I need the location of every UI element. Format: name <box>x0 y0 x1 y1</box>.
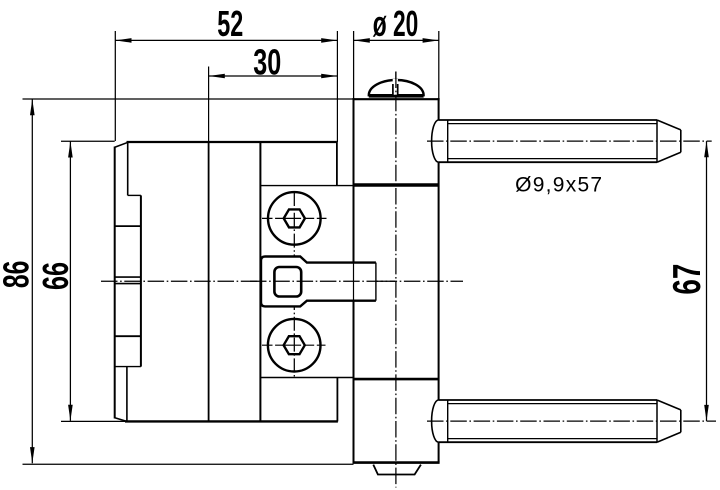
center block inner square <box>274 267 301 297</box>
boss line D <box>115 335 141 337</box>
boss step bottom <box>115 366 141 368</box>
svg-text:66: 66 <box>35 262 76 290</box>
boss line C <box>115 283 141 285</box>
screw U1 circle <box>268 192 321 245</box>
pin2 thread line top <box>448 403 657 405</box>
boss line B <box>115 276 141 278</box>
screw column left edge <box>259 142 261 421</box>
boss line A <box>115 225 141 227</box>
leaf top edge <box>127 141 337 143</box>
pin2 cone top slant <box>657 400 681 410</box>
dimension 67 arrow bottom <box>704 405 709 421</box>
pin head dome slot <box>393 79 398 95</box>
dimension 86 line <box>31 99 33 463</box>
barrel right edge middle <box>438 162 440 400</box>
svg-text:30: 30 <box>253 41 281 82</box>
bottom plug <box>373 465 421 475</box>
leaf inner edge lower <box>126 367 128 421</box>
svg-text:86: 86 <box>0 261 37 289</box>
dimension 86 arrow bottom <box>30 447 35 463</box>
dimension o20 arrow left <box>354 38 370 43</box>
pin2 cap arc <box>432 400 439 442</box>
pin1 cap joint <box>447 120 449 162</box>
screw U2 hex socket <box>284 336 305 354</box>
pin1 top edge <box>439 119 657 121</box>
pin1 cone bottom slant <box>657 152 681 162</box>
barrel right edge upper <box>438 98 440 120</box>
pin2 cap joint <box>447 400 449 442</box>
dimension 52/30 extension right <box>336 31 338 142</box>
pin head dome base <box>369 95 424 98</box>
pin2 cone base <box>656 400 658 442</box>
dimension 52 arrow left <box>115 38 131 43</box>
pin2 thread line bottom <box>448 438 657 440</box>
bottom block top line <box>260 377 353 379</box>
pin1 cone tip <box>680 130 682 152</box>
centerline screw1 horizontal <box>262 217 327 219</box>
svg-text:ø 20: ø 20 <box>373 3 419 44</box>
dimension 30 arrow right <box>321 74 337 79</box>
barrel left edge over tongue <box>353 263 355 301</box>
centerline screw2 horizontal <box>262 344 326 346</box>
dimension 67 line <box>706 141 708 421</box>
boss step top <box>128 194 141 196</box>
dimension 66 line <box>69 141 71 421</box>
screw U2 circle <box>268 319 321 372</box>
dimension 86 extension bottom <box>23 463 354 465</box>
pin head slot left edge <box>392 84 394 96</box>
bottom block right edge <box>336 378 338 422</box>
svg-text:52: 52 <box>217 3 243 44</box>
pin1 cone base <box>656 120 658 162</box>
barrel left edge lower <box>353 301 355 463</box>
centerline pin1 horizontal <box>427 140 712 142</box>
centerline pin2 horizontal <box>427 420 716 422</box>
center block right end <box>375 263 377 301</box>
dimension 66 arrow top <box>68 141 73 157</box>
centerline screw column vertical <box>293 192 295 377</box>
centerline through dome slot <box>395 72 397 97</box>
top block bottom line <box>260 185 353 187</box>
centerline main horizontal <box>101 280 463 282</box>
dimension 52 extension left <box>114 31 116 141</box>
barrel top edge <box>353 98 440 100</box>
pin1 thread line bottom <box>448 158 657 160</box>
dimension 66 arrow bottom <box>68 405 73 421</box>
barrel right edge lower <box>438 442 440 462</box>
pin2 top edge <box>439 399 657 401</box>
dimension 30 arrow left <box>209 74 225 79</box>
dimension o20 arrow right <box>423 38 439 43</box>
leaf top chamfer <box>114 142 128 147</box>
dimension o20 line <box>354 39 439 41</box>
barrel left edge upper <box>353 98 355 263</box>
pin1 thread line top <box>448 123 657 125</box>
dimension 30 extension left <box>208 67 210 143</box>
pin2 bottom edge <box>439 441 657 443</box>
boss right edge <box>140 195 142 366</box>
leaf bottom chamfer <box>114 418 126 422</box>
dimension o20 extension right <box>438 31 440 98</box>
leaf left edge <box>114 147 116 419</box>
dimension 52 arrow right <box>321 38 337 43</box>
center block body <box>261 257 376 307</box>
screw U1 hex socket <box>284 209 305 227</box>
dimension 86 extension top <box>23 98 354 100</box>
leaf inner edge upper <box>127 143 129 195</box>
dimension 86 arrow top <box>30 99 35 115</box>
svg-text:Ø9,9x57: Ø9,9x57 <box>515 174 602 197</box>
top block right edge <box>336 142 338 186</box>
centerline barrel vertical <box>395 72 397 488</box>
barrel bottom edge <box>353 461 440 464</box>
dimension 66 extension top <box>61 140 115 142</box>
leaf bottom edge <box>125 420 338 422</box>
dimension 66 extension bottom <box>61 420 125 422</box>
pin2 cone tip <box>680 410 682 432</box>
leaf fold line <box>208 142 210 421</box>
barrel left edge across tongue <box>353 263 355 301</box>
svg-text:67: 67 <box>666 264 709 295</box>
dimension 52 line <box>115 39 337 41</box>
barrel joint thick bottom <box>354 378 439 381</box>
dimension o20 extension left <box>353 31 355 98</box>
centerline over block horizontal <box>250 280 395 282</box>
pin1 bottom edge <box>439 161 657 163</box>
pin1 cone top slant <box>657 120 681 130</box>
pin head dome <box>369 80 424 95</box>
pin head slot right edge <box>397 84 399 96</box>
pin2 cone bottom slant <box>657 432 681 442</box>
dimension 30 line <box>209 75 338 77</box>
center block outline <box>261 257 376 307</box>
barrel joint thick top <box>354 183 439 187</box>
pin1 cap arc <box>432 120 439 162</box>
dimension 67 arrow top <box>704 141 709 157</box>
